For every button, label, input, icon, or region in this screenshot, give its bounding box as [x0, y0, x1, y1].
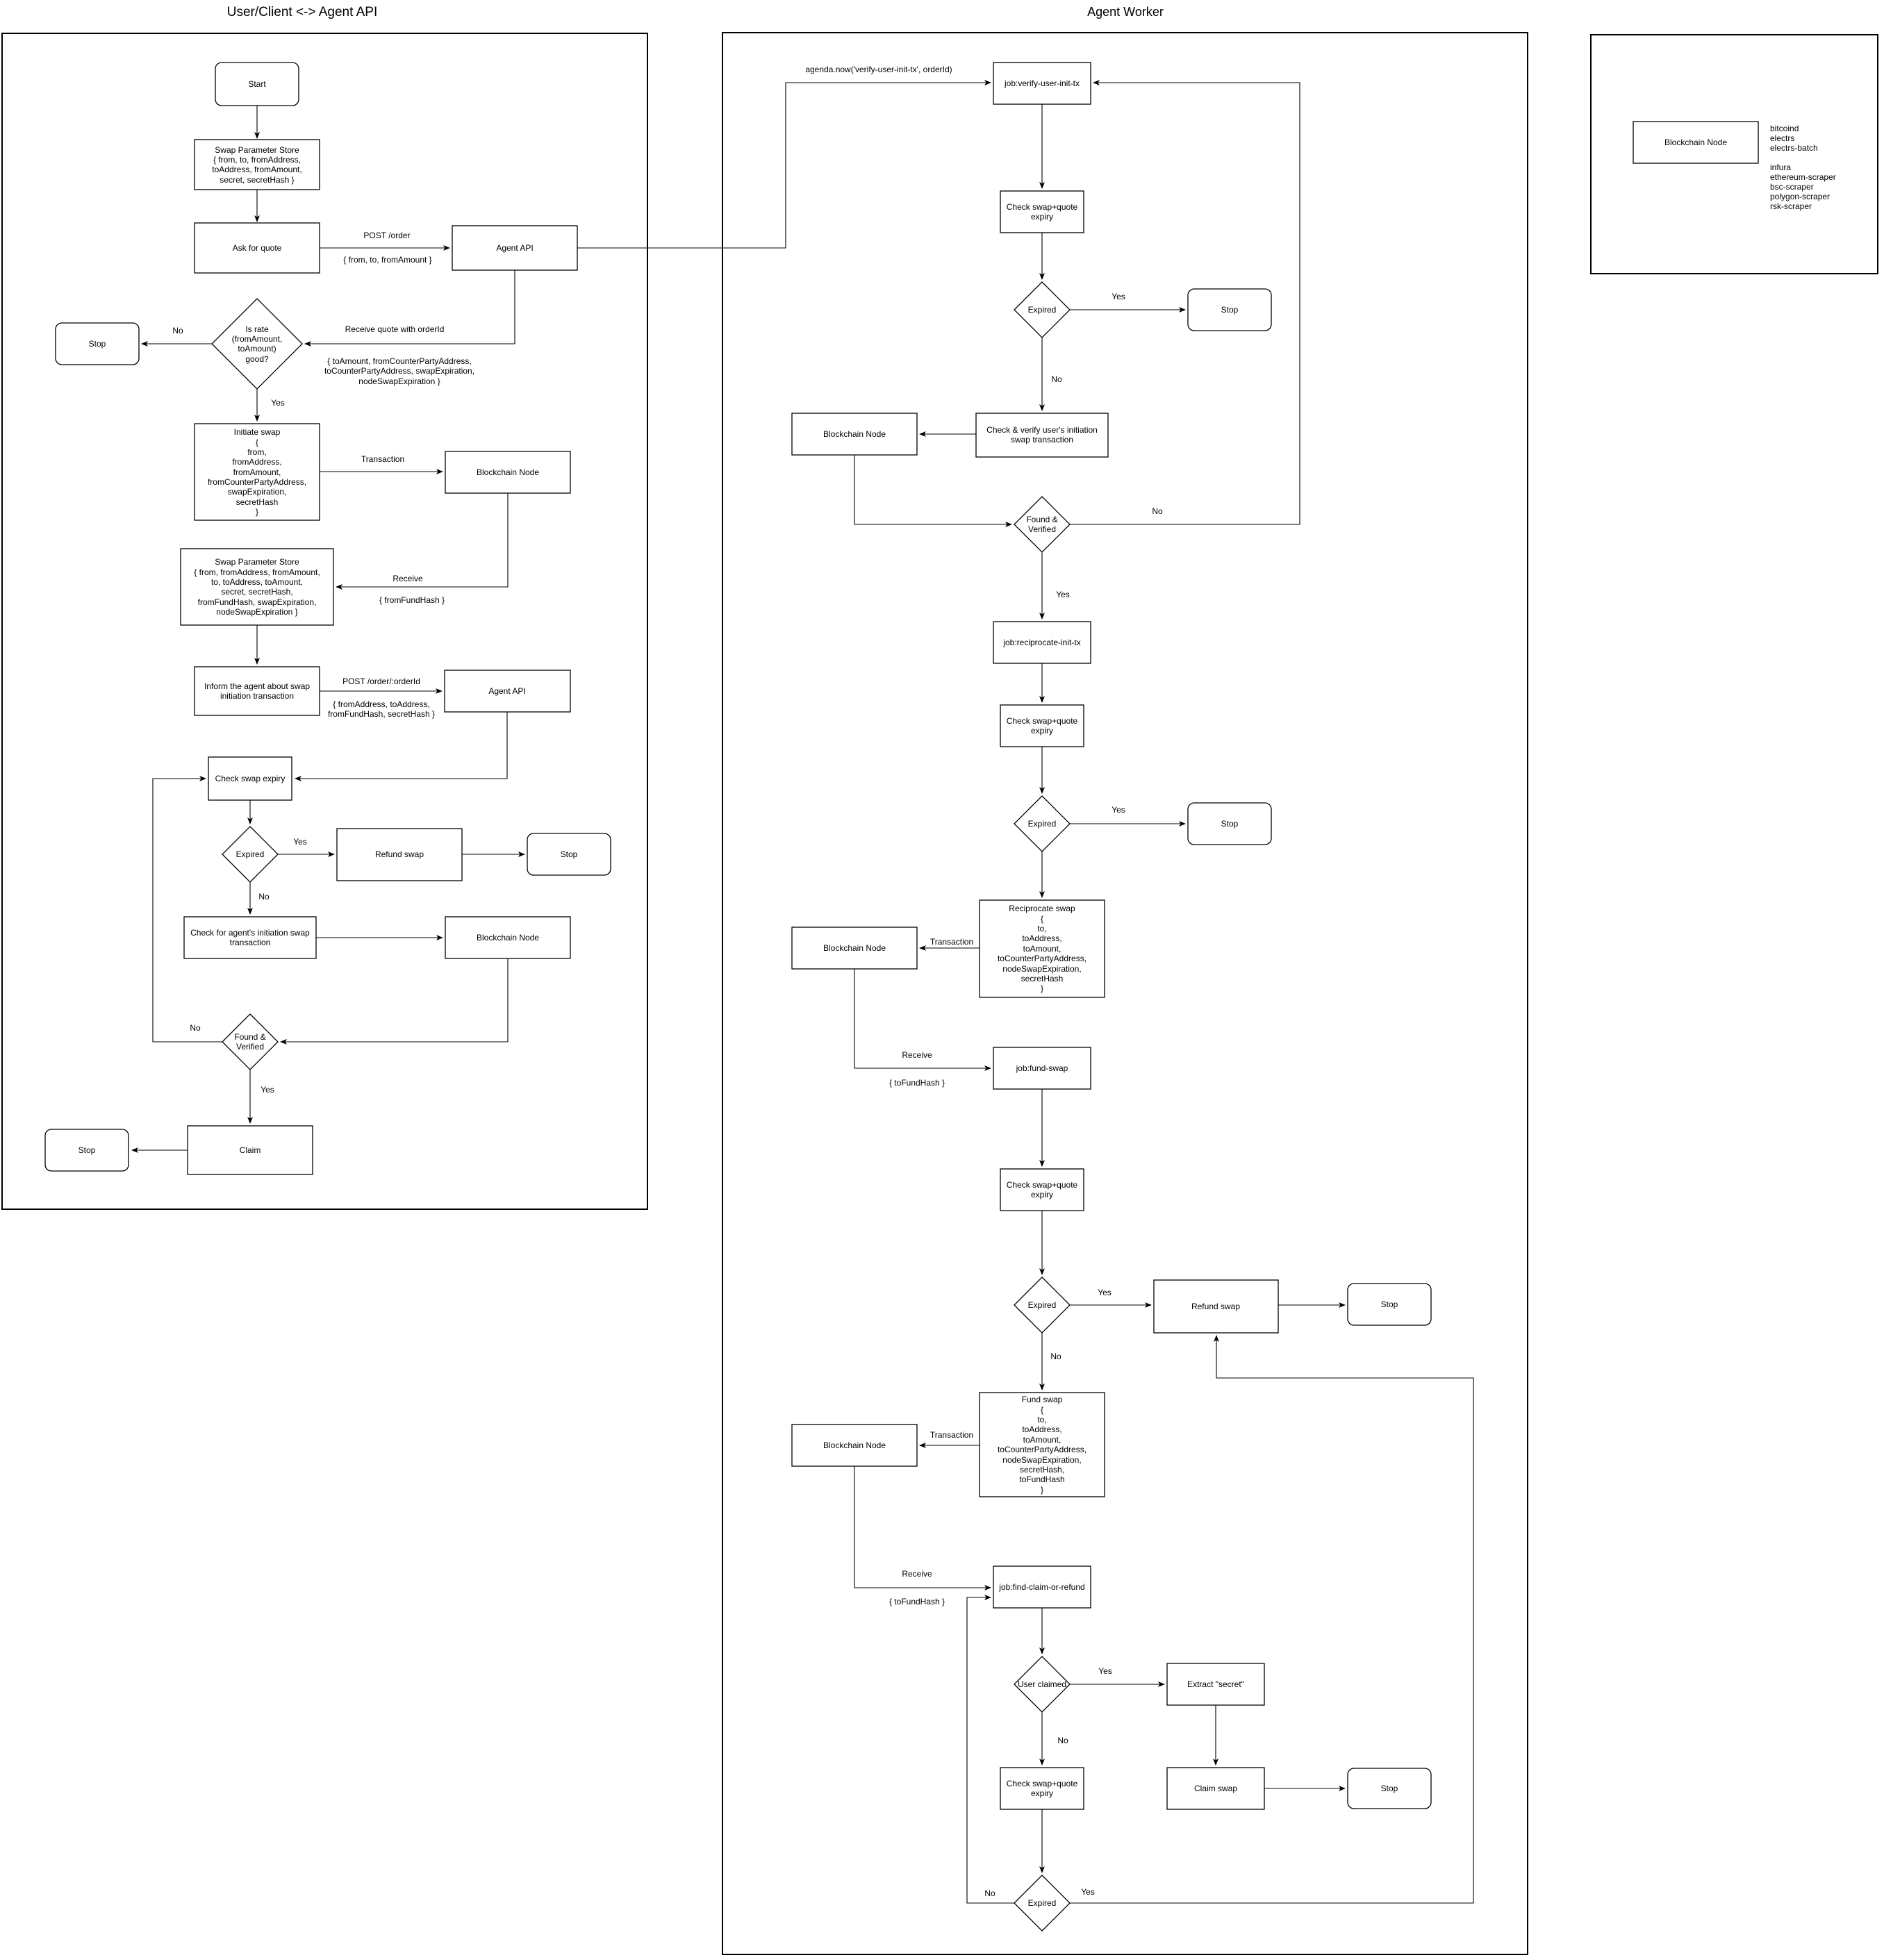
svg-text:Is rate: Is rate: [245, 324, 269, 334]
svg-text:Reciprocate swap: Reciprocate swap: [1009, 904, 1075, 913]
svg-text:toAmount,: toAmount,: [1023, 944, 1061, 954]
svg-text:fromFundHash, swapExpiration,: fromFundHash, swapExpiration,: [198, 597, 317, 607]
svg-text:secretHash: secretHash: [1021, 974, 1064, 983]
svg-text:No: No: [1152, 506, 1163, 516]
svg-text:fromCounterPartyAddress,: fromCounterPartyAddress,: [208, 477, 306, 487]
svg-text:No: No: [1057, 1736, 1068, 1745]
svg-text:toAddress, fromAmount,: toAddress, fromAmount,: [212, 165, 301, 174]
svg-text:Verified: Verified: [236, 1042, 264, 1052]
svg-text:Stop: Stop: [1221, 305, 1239, 315]
svg-text:Inform the agent about swap: Inform the agent about swap: [204, 681, 310, 691]
svg-text:Yes: Yes: [1098, 1666, 1112, 1676]
svg-text:rsk-scraper: rsk-scraper: [1770, 201, 1812, 211]
svg-text:Blockchain Node: Blockchain Node: [477, 467, 539, 477]
svg-text:nodeSwapExpiration,: nodeSwapExpiration,: [1002, 964, 1081, 974]
svg-text:Agent Worker: Agent Worker: [1087, 5, 1164, 19]
svg-text:fromAmount,: fromAmount,: [233, 467, 281, 477]
svg-text:Check swap+quote: Check swap+quote: [1007, 1779, 1078, 1788]
svg-text:infura: infura: [1770, 163, 1791, 172]
svg-text:job:verify-user-init-tx: job:verify-user-init-tx: [1004, 78, 1080, 88]
svg-text:Transaction: Transaction: [930, 1430, 973, 1440]
svg-text:transaction: transaction: [230, 938, 271, 947]
svg-text:No: No: [984, 1888, 995, 1898]
svg-text:Yes: Yes: [1098, 1288, 1112, 1297]
svg-text:}: }: [1041, 983, 1043, 993]
svg-text:{: {: [1041, 1405, 1043, 1415]
svg-text:No: No: [258, 892, 270, 902]
svg-text:Stop: Stop: [89, 339, 106, 349]
svg-text:Extract "secret": Extract "secret": [1187, 1679, 1244, 1689]
svg-text:No: No: [172, 326, 183, 335]
svg-text:expiry: expiry: [1031, 212, 1053, 222]
svg-text:secret, secretHash,: secret, secretHash,: [221, 587, 292, 597]
svg-text:from,: from,: [247, 447, 266, 457]
svg-text:Expired: Expired: [1028, 819, 1057, 829]
svg-text:swapExpiration,: swapExpiration,: [228, 487, 287, 497]
svg-text:Yes: Yes: [1112, 292, 1125, 301]
svg-text:Fund swap: Fund swap: [1022, 1395, 1063, 1404]
svg-text:toAmount,: toAmount,: [1023, 1435, 1061, 1445]
svg-text:Expired: Expired: [1028, 1898, 1057, 1908]
svg-text:Blockchain Node: Blockchain Node: [823, 429, 886, 439]
svg-text:{ toAmount, fromCounterPartyAd: { toAmount, fromCounterPartyAddress,: [327, 356, 471, 366]
svg-text:nodeSwapExpiration,: nodeSwapExpiration,: [1002, 1455, 1081, 1465]
svg-text:secretHash: secretHash: [236, 497, 279, 507]
svg-text:electrs: electrs: [1770, 133, 1794, 143]
svg-text:Initiate swap: Initiate swap: [234, 427, 281, 437]
svg-text:expiry: expiry: [1031, 1190, 1053, 1199]
svg-text:Found &: Found &: [234, 1032, 265, 1042]
svg-text:toFundHash: toFundHash: [1019, 1475, 1064, 1484]
svg-text:good?: good?: [245, 354, 269, 364]
svg-text:{: {: [1041, 914, 1043, 924]
svg-text:User claimed: User claimed: [1018, 1679, 1066, 1689]
svg-text:{ toFundHash }: { toFundHash }: [889, 1078, 945, 1088]
svg-text:Expired: Expired: [1028, 305, 1057, 315]
svg-text:Check swap+quote: Check swap+quote: [1007, 202, 1078, 212]
svg-text:Agent API: Agent API: [496, 243, 533, 253]
svg-text:Check for agent's initiation s: Check for agent's initiation swap: [190, 928, 310, 938]
svg-text:Verified: Verified: [1028, 524, 1056, 534]
svg-text:toAddress,: toAddress,: [1022, 1425, 1061, 1434]
svg-text:secret, secretHash }: secret, secretHash }: [220, 175, 294, 185]
svg-text:Yes: Yes: [1081, 1887, 1095, 1897]
svg-text:ethereum-scraper: ethereum-scraper: [1770, 172, 1836, 182]
svg-text:Check swap+quote: Check swap+quote: [1007, 716, 1078, 726]
svg-text:No: No: [190, 1023, 201, 1033]
svg-text:Stop: Stop: [1221, 819, 1239, 829]
svg-text:No: No: [1051, 374, 1062, 384]
svg-text:Swap Parameter Store: Swap Parameter Store: [215, 557, 299, 567]
svg-text:toCounterPartyAddress,: toCounterPartyAddress,: [998, 954, 1086, 963]
svg-text:Check swap expiry: Check swap expiry: [215, 774, 286, 783]
svg-text:{ from, fromAddress, fromAmoun: { from, fromAddress, fromAmount,: [194, 567, 320, 577]
svg-text:Yes: Yes: [271, 398, 285, 408]
svg-text:to, toAddress, toAmount,: to, toAddress, toAmount,: [211, 577, 303, 587]
svg-text:{ from, to, fromAmount }: { from, to, fromAmount }: [343, 255, 431, 265]
svg-text:toCounterPartyAddress, swapExp: toCounterPartyAddress, swapExpiration,: [324, 366, 474, 376]
svg-text:Receive: Receive: [902, 1050, 932, 1060]
svg-text:job:fund-swap: job:fund-swap: [1016, 1063, 1068, 1073]
svg-text:toAddress,: toAddress,: [1022, 933, 1061, 943]
svg-text:Yes: Yes: [1112, 805, 1125, 815]
svg-text:Found &: Found &: [1026, 515, 1057, 524]
svg-text:bitcoind: bitcoind: [1770, 124, 1799, 133]
svg-text:Blockchain Node: Blockchain Node: [477, 933, 539, 942]
svg-text:POST /order/:orderId: POST /order/:orderId: [342, 676, 420, 686]
svg-text:Blockchain Node: Blockchain Node: [823, 1440, 886, 1450]
svg-text:Receive: Receive: [902, 1569, 932, 1579]
svg-text:fromFundHash, secretHash }: fromFundHash, secretHash }: [328, 709, 435, 719]
svg-text:Blockchain Node: Blockchain Node: [1664, 138, 1727, 147]
svg-text:POST /order: POST /order: [363, 231, 410, 240]
svg-text:polygon-scraper: polygon-scraper: [1770, 192, 1830, 201]
svg-text:Yes: Yes: [1056, 590, 1070, 599]
svg-text:to,: to,: [1037, 1415, 1046, 1425]
svg-text:(fromAmount,: (fromAmount,: [232, 334, 283, 344]
svg-text:Blockchain Node: Blockchain Node: [823, 943, 886, 953]
svg-text:}: }: [256, 507, 258, 517]
svg-text:Refund swap: Refund swap: [375, 849, 424, 859]
svg-text:Swap Parameter Store: Swap Parameter Store: [215, 145, 299, 155]
svg-text:expiry: expiry: [1031, 1788, 1053, 1798]
svg-text:initiation transaction: initiation transaction: [220, 691, 294, 701]
svg-text:User/Client <-> Agent API: User/Client <-> Agent API: [227, 5, 378, 19]
svg-text:No: No: [1050, 1352, 1061, 1361]
svg-text:Stop: Stop: [78, 1145, 96, 1155]
svg-text:agenda.now('verify-user-init-t: agenda.now('verify-user-init-tx', orderI…: [805, 65, 952, 74]
svg-text:{ from, to, fromAddress,: { from, to, fromAddress,: [213, 155, 301, 165]
svg-text:{ fromFundHash }: { fromFundHash }: [379, 595, 445, 605]
svg-text:Stop: Stop: [1381, 1784, 1398, 1793]
svg-text:}: }: [1041, 1485, 1043, 1495]
svg-text:Stop: Stop: [1381, 1299, 1398, 1309]
svg-text:toAmount): toAmount): [238, 344, 276, 354]
svg-text:fromAddress,: fromAddress,: [232, 457, 281, 467]
svg-text:Expired: Expired: [1028, 1300, 1057, 1310]
svg-text:nodeSwapExpiration }: nodeSwapExpiration }: [358, 376, 440, 386]
svg-text:Transaction: Transaction: [361, 454, 404, 464]
svg-text:Stop: Stop: [561, 849, 578, 859]
svg-text:to,: to,: [1037, 924, 1046, 933]
svg-text:bsc-scraper: bsc-scraper: [1770, 182, 1814, 192]
svg-text:Refund swap: Refund swap: [1191, 1302, 1240, 1311]
svg-text:toCounterPartyAddress,: toCounterPartyAddress,: [998, 1445, 1086, 1454]
svg-text:secretHash,: secretHash,: [1020, 1465, 1064, 1475]
svg-text:Ask for quote: Ask for quote: [233, 243, 282, 253]
svg-text:Yes: Yes: [293, 837, 307, 847]
svg-text:Agent API: Agent API: [488, 686, 525, 696]
svg-text:nodeSwapExpiration }: nodeSwapExpiration }: [216, 607, 297, 617]
svg-text:expiry: expiry: [1031, 726, 1053, 736]
svg-text:Start: Start: [248, 79, 266, 89]
svg-text:swap transaction: swap transaction: [1011, 435, 1073, 445]
svg-text:Yes: Yes: [261, 1085, 274, 1095]
svg-text:job:find-claim-or-refund: job:find-claim-or-refund: [998, 1582, 1084, 1592]
svg-text:Check swap+quote: Check swap+quote: [1007, 1180, 1078, 1190]
svg-text:Expired: Expired: [236, 849, 265, 859]
svg-text:Receive: Receive: [392, 574, 423, 583]
svg-text:{: {: [256, 438, 258, 447]
svg-text:Claim swap: Claim swap: [1194, 1784, 1237, 1793]
svg-text:Receive quote with orderId: Receive quote with orderId: [345, 324, 445, 334]
svg-text:electrs-batch: electrs-batch: [1770, 143, 1818, 153]
svg-text:{ toFundHash }: { toFundHash }: [889, 1597, 945, 1606]
svg-text:Check & verify user's initiati: Check & verify user's initiation: [986, 425, 1098, 435]
svg-text:job:reciprocate-init-tx: job:reciprocate-init-tx: [1002, 638, 1080, 647]
svg-text:{ fromAddress, toAddress,: { fromAddress, toAddress,: [333, 699, 429, 709]
svg-text:Transaction: Transaction: [930, 937, 973, 947]
svg-text:Claim: Claim: [240, 1145, 261, 1155]
